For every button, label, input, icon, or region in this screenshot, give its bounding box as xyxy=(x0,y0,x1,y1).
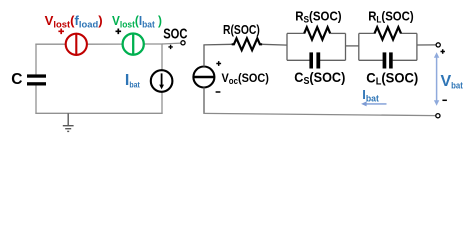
wire top segment 2 xyxy=(87,43,123,45)
Ibat arrow xyxy=(361,101,386,106)
wire left vertical top xyxy=(35,44,37,75)
svg-text:Vlost(fload): Vlost(fload) xyxy=(45,14,103,29)
plus sign top right xyxy=(441,49,445,53)
wire block1 to block2 xyxy=(346,45,360,47)
wire right top segment 1 xyxy=(203,43,232,46)
svg-text:Ibat: Ibat xyxy=(125,72,140,90)
wire left vertical bottom xyxy=(35,85,37,114)
node SOC terminal xyxy=(181,41,185,45)
wire Voc top vertical xyxy=(203,45,205,67)
wire bottom right circuit xyxy=(203,113,435,115)
plus sign of Voc xyxy=(216,61,221,66)
wire Voc bottom vertical xyxy=(203,87,205,114)
plus sign of Vlost(fload) xyxy=(58,29,64,35)
wire top segment 3 xyxy=(144,43,163,45)
voltage source Voc(SOC) xyxy=(193,67,214,88)
wire top segment 1 xyxy=(35,43,65,45)
svg-text:CS(SOC): CS(SOC) xyxy=(294,70,345,87)
minus sign bottom right xyxy=(442,99,447,101)
capacitor C plates xyxy=(27,74,46,85)
minus sign of Voc xyxy=(216,91,221,93)
plus sign of Vlost(Ibat) xyxy=(116,29,122,35)
svg-text:CL(SOC): CL(SOC) xyxy=(366,70,418,87)
svg-text:Voc(SOC): Voc(SOC) xyxy=(222,71,269,86)
wire to SOC terminal xyxy=(162,42,181,45)
svg-text:Ibat: Ibat xyxy=(362,87,379,104)
svg-text:Vbat: Vbat xyxy=(441,73,464,92)
wire below Ibat source xyxy=(161,92,163,114)
Vbat arrow double-headed xyxy=(434,52,439,106)
svg-text:RL(SOC): RL(SOC) xyxy=(368,10,414,25)
arrowhead of Ibat source xyxy=(159,85,164,90)
resistor RL(SOC) xyxy=(375,27,401,39)
wire R(SOC) to block1 xyxy=(262,43,288,46)
svg-text:SOC: SOC xyxy=(163,26,187,42)
wire junction vertical xyxy=(161,44,163,71)
node terminal top right xyxy=(436,43,440,47)
capacitor CL(SOC) plates xyxy=(383,52,393,68)
resistor R(SOC) xyxy=(232,38,262,50)
current source Vlost(fload) R1 xyxy=(66,34,87,55)
svg-text:RS(SOC): RS(SOC) xyxy=(295,10,341,25)
current source Ibat xyxy=(151,70,173,92)
svg-text:Vlost(Ibat ): Vlost(Ibat ) xyxy=(112,14,162,29)
node terminal bottom right xyxy=(436,114,440,118)
capacitor CS(SOC) plates xyxy=(309,52,320,68)
plus sign at SOC node xyxy=(168,45,172,49)
svg-text:R(SOC): R(SOC) xyxy=(223,22,260,37)
current source Vlost(Ibat) xyxy=(123,34,144,55)
resistor RS(SOC) xyxy=(304,27,330,39)
svg-text:C: C xyxy=(11,71,22,88)
RC block 2 frame xyxy=(359,33,417,60)
wire block2 to terminal xyxy=(417,44,436,46)
wire bottom left circuit xyxy=(35,112,162,114)
ground xyxy=(63,113,74,131)
RC block 1 frame xyxy=(287,33,346,60)
